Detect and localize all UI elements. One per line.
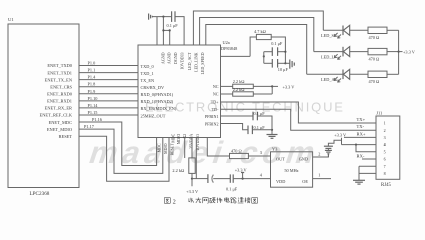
svg-text:ENET_TXD0: ENET_TXD0	[47, 63, 72, 68]
svg-text:P1.9: P1.9	[88, 89, 96, 94]
capacitor 0.1uF PFBIN2	[248, 125, 265, 134]
U2 pin name 25MHZ_OUT	[141, 113, 166, 118]
svg-text:0.1 μF: 0.1 μF	[254, 111, 266, 116]
U1 pin name ENET_TXD0	[47, 63, 72, 68]
U1 pin name ENET_MDIO	[47, 127, 72, 132]
wire to resistor 4.7k	[250, 37, 256, 56]
wire cap1 to rail	[278, 51, 287, 53]
node +3.3 V LED rail	[399, 50, 416, 55]
net label MDIO	[164, 143, 168, 154]
svg-text:TX+: TX+	[357, 117, 366, 122]
resistor 470 ohm row 2	[368, 48, 387, 61]
U1 pin name RESET	[59, 134, 73, 139]
svg-text:10 μF: 10 μF	[278, 67, 289, 72]
svg-text:0.1 μF: 0.1 μF	[254, 125, 266, 130]
U2 pin name TXD_1	[141, 71, 154, 76]
wire ENET_RX_ER net P1.14	[79, 103, 138, 108]
svg-text:MDC: MDC	[172, 133, 176, 142]
svg-text:MDIO: MDIO	[177, 134, 181, 145]
U2 pin name AGND	[161, 52, 166, 64]
U2 pin name LED_LINK	[194, 52, 199, 71]
svg-text:8: 8	[384, 171, 386, 176]
svg-text:P1.1: P1.1	[88, 68, 96, 73]
svg-text:2: 2	[318, 151, 320, 156]
svg-text:2.2 kΩ: 2.2 kΩ	[233, 87, 245, 92]
U2 pin name RXD_1(PHYAD2)	[141, 99, 174, 104]
svg-text:3: 3	[384, 135, 386, 140]
wire to LED_S	[323, 29, 343, 31]
U2 pin name RXD_0(PHYAD1)	[141, 92, 174, 97]
wire PFBIN2	[221, 124, 249, 130]
wire resistor row 2 to rail	[387, 51, 399, 53]
svg-text:NC: NC	[213, 92, 219, 97]
svg-text:MDIO: MDIO	[164, 143, 168, 154]
J11 pin numbers 1-8	[384, 121, 386, 176]
svg-text:1: 1	[384, 121, 386, 126]
U2 pin name PFBIN1	[205, 114, 219, 119]
svg-text:ENET_MDC: ENET_MDC	[49, 120, 72, 125]
wire ENET_TXD1 net P1.1	[79, 68, 138, 73]
svg-text:J11: J11	[376, 111, 382, 116]
svg-text:GND: GND	[299, 157, 308, 162]
wire ENET_TXD0 net P1.0	[79, 61, 138, 66]
wire resistor 4.7k to rail	[271, 37, 285, 63]
svg-text:+3.3 V: +3.3 V	[186, 189, 199, 194]
wire resistor row 1 to rail	[387, 29, 399, 31]
wire RD- to +3.3V	[253, 85, 272, 87]
svg-text:NC: NC	[213, 84, 219, 89]
svg-text:RESET: RESET	[59, 134, 73, 139]
svg-text:RX_ER(MDIX_EN): RX_ER(MDIX_EN)	[141, 106, 177, 111]
svg-text:RESET: RESET	[170, 143, 174, 156]
svg-text:P1.16: P1.16	[92, 117, 103, 122]
svg-text:RX+: RX+	[357, 132, 366, 137]
wire Y3 GND pin 2	[313, 151, 329, 157]
wire RX+ stub	[344, 132, 376, 138]
node +3.3 V rail tap	[235, 168, 248, 179]
svg-text:LED_SPEED: LED_SPEED	[200, 52, 205, 74]
svg-text:RJ45: RJ45	[381, 183, 391, 188]
wire RD- row	[221, 85, 233, 87]
wire IOVDD33	[175, 17, 184, 45]
U2 pin name NC 2	[213, 92, 219, 97]
wire AGND net top	[152, 16, 171, 18]
wire PFBIN2 to gnd	[252, 129, 272, 131]
U2 pin name RX_ER(MDIX_EN)	[141, 106, 177, 111]
svg-text:VDD: VDD	[276, 179, 285, 184]
svg-text:U2a: U2a	[223, 40, 230, 45]
svg-text:4.7 kΩ: 4.7 kΩ	[254, 29, 266, 34]
svg-text:RX-: RX-	[357, 153, 365, 158]
svg-text:2.2 kΩ: 2.2 kΩ	[172, 168, 184, 173]
svg-text:LED_LINK: LED_LINK	[194, 52, 199, 71]
U2 pin name 25VDDA bottom	[189, 134, 193, 149]
U2 pin name LED_SPEED	[200, 52, 205, 74]
wire DGND pin up	[169, 30, 171, 45]
wire to cap 0.1uF	[264, 51, 273, 53]
U2 pin name TXD_0	[141, 64, 154, 69]
svg-text:470 Ω: 470 Ω	[369, 79, 380, 84]
svg-text:+3.3 V: +3.3 V	[235, 168, 248, 173]
svg-text:TXD_1: TXD_1	[141, 71, 154, 76]
U1 pin name ENET_TXD1	[47, 70, 72, 75]
svg-text:6: 6	[384, 157, 386, 162]
node junction PFBOUT	[263, 52, 265, 64]
U2 pin name TX_EN	[141, 78, 155, 83]
svg-text:LED_S: LED_S	[321, 33, 335, 38]
wire bottom rail	[192, 178, 208, 180]
U1 pin name ENET_MDC	[49, 120, 72, 125]
svg-text:ENET_RX_ER: ENET_RX_ER	[45, 106, 72, 111]
U2 pin name IOVDD33	[180, 53, 185, 70]
wire Y3 OE pin 1	[313, 173, 331, 179]
U2 pin name MDC bottom	[172, 133, 176, 142]
wire to shield ground	[358, 173, 360, 180]
wire rail mid	[213, 178, 230, 180]
net label MDC	[158, 143, 162, 152]
net label RESET	[170, 143, 174, 156]
wire AGND pin 2 up	[162, 17, 164, 45]
wire center tap pin 4	[342, 144, 377, 146]
IC U2a Ethernet PHY DP83848 box	[138, 40, 237, 138]
svg-text:LED_ACT: LED_ACT	[187, 52, 192, 70]
U1 pin name ENET_RXD1	[47, 99, 72, 104]
svg-text:P1.4: P1.4	[88, 75, 97, 80]
svg-text:5: 5	[384, 149, 386, 154]
svg-text:25VDDA: 25VDDA	[189, 134, 193, 149]
wire cap branch	[328, 140, 341, 146]
wire PFBIN1	[221, 115, 254, 117]
wire cap2 to rail	[278, 62, 287, 64]
svg-text:470 Ω: 470 Ω	[369, 35, 380, 40]
U1 pin name ENET_CRS	[50, 84, 72, 89]
capacitor center tap	[324, 146, 333, 148]
svg-text:2: 2	[384, 128, 386, 133]
wire RD+ up	[253, 85, 273, 94]
wire ENET_TX_EN net P1.4	[79, 75, 138, 80]
wire resistor row 3 to rail	[387, 73, 399, 75]
LED LED_L	[321, 47, 350, 60]
svg-text:TX_EN: TX_EN	[141, 78, 155, 83]
svg-text:50 MHz: 50 MHz	[284, 168, 298, 173]
svg-text:1: 1	[318, 173, 320, 178]
wire LED_SPEED feed	[206, 25, 307, 75]
svg-text:3: 3	[260, 150, 262, 155]
svg-text:ENET_RXD0: ENET_RXD0	[47, 91, 73, 96]
svg-text:0.1 μF: 0.1 μF	[167, 23, 179, 28]
IC U1 microcontroller LPC2368 box	[8, 17, 79, 197]
svg-text:OE: OE	[302, 179, 308, 184]
resistor 2.2 kOhm pullup 2	[233, 87, 254, 96]
resistor 470 ohm row 3	[368, 71, 387, 84]
wire J11 pin 8	[359, 166, 376, 173]
capacitor 0.1uF PFBIN1	[253, 111, 265, 120]
svg-text:P1.10: P1.10	[88, 96, 98, 101]
wire 470 ohm to Y3 OUT	[248, 150, 270, 156]
caption figure 2 Ethernet hardware circuit connection diagram	[164, 197, 257, 205]
svg-text:OUT: OUT	[276, 157, 285, 162]
svg-text:ENET_CRS: ENET_CRS	[50, 84, 72, 89]
LED LED_S	[321, 25, 350, 38]
svg-text:PFBIN2: PFBIN2	[205, 121, 219, 126]
capacitor 0.1uF bottom	[226, 174, 238, 191]
U1 pin name ENET_RXD0	[47, 91, 73, 96]
svg-text:ENET_REF_CLK: ENET_REF_CLK	[40, 113, 73, 118]
svg-text:25MHZ_OUT: 25MHZ_OUT	[141, 113, 166, 118]
wire X2 stub	[184, 138, 186, 159]
ground PFBIN	[267, 135, 278, 139]
svg-text:RXD_0(PHYAD1): RXD_0(PHYAD1)	[141, 92, 174, 97]
wire AGND pin 1 up	[156, 17, 158, 45]
svg-text:PFBIN1: PFBIN1	[205, 114, 219, 119]
svg-text:AGND: AGND	[161, 52, 166, 64]
svg-text:AGND: AGND	[167, 52, 172, 64]
svg-text:P1.15: P1.15	[88, 110, 98, 115]
wire gnd bridge	[162, 29, 171, 31]
wire ENET_MDIO routed to PHY bottom	[79, 124, 163, 173]
svg-text:ENET_TX_EN: ENET_TX_EN	[45, 77, 73, 82]
svg-text:2: 2	[173, 198, 176, 205]
svg-text:Y3: Y3	[272, 147, 278, 152]
wire J11 pin 7	[359, 165, 376, 167]
wire ENET_MDC routed to PHY bottom	[79, 117, 157, 165]
svg-text:TD+: TD+	[211, 100, 219, 105]
svg-text:ENET_TXD1: ENET_TXD1	[47, 70, 72, 75]
svg-text:LPC2368: LPC2368	[30, 191, 50, 197]
svg-text:TX-: TX-	[357, 124, 365, 129]
wire RESET routed to PHY bottom	[79, 136, 169, 181]
capacitor 0.1uF PFBOUT	[271, 41, 283, 56]
svg-text:+3.3 V: +3.3 V	[403, 50, 416, 55]
wire TD+ to TX+	[221, 102, 377, 123]
ground right of caps	[285, 60, 294, 69]
U2 pin name DGND	[173, 52, 178, 64]
node +3.3 V pullups	[272, 84, 295, 89]
svg-text:CRS/RX_DV: CRS/RX_DV	[141, 85, 166, 90]
wire to LED_A	[307, 73, 343, 75]
U2 pin name NC 1	[213, 84, 219, 89]
wire PFBIN1 to gnd rail	[257, 116, 273, 134]
wire pin to rail	[195, 138, 197, 179]
svg-text:+3.3 V: +3.3 V	[334, 133, 347, 138]
capacitor 10uF PFBOUT	[272, 59, 288, 72]
svg-text:LED_A: LED_A	[321, 77, 336, 82]
U2 pin name IOVDD33 bottom	[196, 134, 200, 150]
svg-text:LED_L: LED_L	[321, 55, 335, 60]
U2 pin name PFBIN2	[205, 121, 219, 126]
wire ENET_RXD1 net P1.10	[79, 96, 138, 101]
wire X1 to 470 ohm	[207, 138, 229, 157]
wire center tap pin 5	[356, 145, 376, 152]
svg-text:TD-: TD-	[212, 107, 219, 112]
wire RX- stub	[357, 153, 377, 159]
wire ENET_REF_CLK net P1.15	[79, 110, 138, 115]
U2 pin name TD+	[211, 100, 219, 105]
svg-text:0.1 μF: 0.1 μF	[226, 187, 238, 192]
ground RJ45 shield	[353, 180, 365, 184]
U2 pin name TD-	[212, 107, 219, 112]
svg-text:DGND: DGND	[173, 52, 178, 64]
U2 pin name AGND	[167, 52, 172, 64]
svg-text:P1.17: P1.17	[84, 124, 95, 129]
resistor 2.2 kOhm bottom	[172, 138, 195, 174]
svg-text:470 Ω: 470 Ω	[369, 57, 380, 62]
wire RD+ row	[221, 93, 233, 95]
wire ENET_CRS net P1.8	[79, 82, 138, 87]
capacitor electrolytic bottom	[208, 174, 214, 183]
wire PFBOUT pin row	[221, 55, 251, 57]
capacitor 0.1uF top decoupling	[167, 11, 179, 28]
svg-text:2.2 kΩ: 2.2 kΩ	[233, 79, 245, 84]
ground at PHY top-left	[149, 14, 153, 20]
LED LED_A	[321, 69, 350, 82]
connector J11 RJ45 box	[376, 111, 400, 189]
svg-text:TXD_0: TXD_0	[141, 64, 154, 69]
U2 pin name X2 bottom	[183, 134, 187, 139]
resistor 4.7 kOhm	[254, 29, 271, 40]
svg-text:P1.0: P1.0	[88, 61, 96, 66]
U2 pin name MDIO bottom	[177, 134, 181, 145]
svg-text:DP83848: DP83848	[221, 46, 237, 51]
wire LED_A to resistor	[350, 73, 368, 75]
node +3.3 V bottom tap	[186, 179, 199, 194]
wire to cap 10uF	[264, 62, 273, 64]
node +3.3 V RJ45	[334, 133, 347, 145]
wire LED_ACT feed	[193, 11, 323, 45]
ground center tap	[325, 148, 332, 157]
wire TD- to TX-	[221, 109, 377, 130]
wire 2.2k to rail	[191, 173, 193, 179]
svg-text:0.1 μF: 0.1 μF	[271, 41, 283, 46]
svg-text:+3.3 V: +3.3 V	[283, 84, 296, 89]
svg-text:U1: U1	[8, 17, 14, 22]
wire rail to Y3 pin 4	[233, 173, 270, 180]
svg-text:470 Ω: 470 Ω	[231, 148, 242, 153]
wire ENET_RXD0 net P1.9	[79, 89, 138, 94]
resistor 470 ohm oscillator	[230, 148, 249, 158]
svg-text:ENET_RXD1: ENET_RXD1	[47, 99, 72, 104]
wire LED +3.3V rail	[398, 30, 400, 74]
U2 pin name LED_ACT	[187, 52, 192, 70]
U2 pin name CRS/RX_DV	[141, 85, 166, 90]
wire LED_S to resistor	[350, 29, 368, 31]
svg-text:RXD_1(PHYAD2): RXD_1(PHYAD2)	[141, 99, 174, 104]
oscillator Y3 50 MHz box	[271, 147, 313, 188]
watermark	[85, 100, 345, 170]
resistor 2.2 kOhm pullup 1	[233, 79, 254, 88]
U1 pin name ENET_RX_ER	[45, 106, 72, 111]
svg-text:ENET_MDIO: ENET_MDIO	[47, 127, 72, 132]
U1 pin name ENET_TX_EN	[45, 77, 73, 82]
svg-text:4: 4	[384, 142, 386, 147]
resistor 470 ohm row 1	[368, 27, 387, 40]
wire to LED_L	[314, 51, 343, 53]
wire LED_LINK feed	[200, 18, 314, 52]
svg-text:MDC: MDC	[158, 143, 162, 152]
svg-text:7: 7	[384, 164, 386, 169]
svg-text:P1.14: P1.14	[88, 103, 99, 108]
svg-text:IOVDD33: IOVDD33	[180, 53, 185, 70]
svg-text:P1.8: P1.8	[88, 82, 96, 87]
wire LED_L to resistor	[350, 51, 368, 53]
U1 pin name ENET_REF_CLK	[40, 113, 73, 118]
